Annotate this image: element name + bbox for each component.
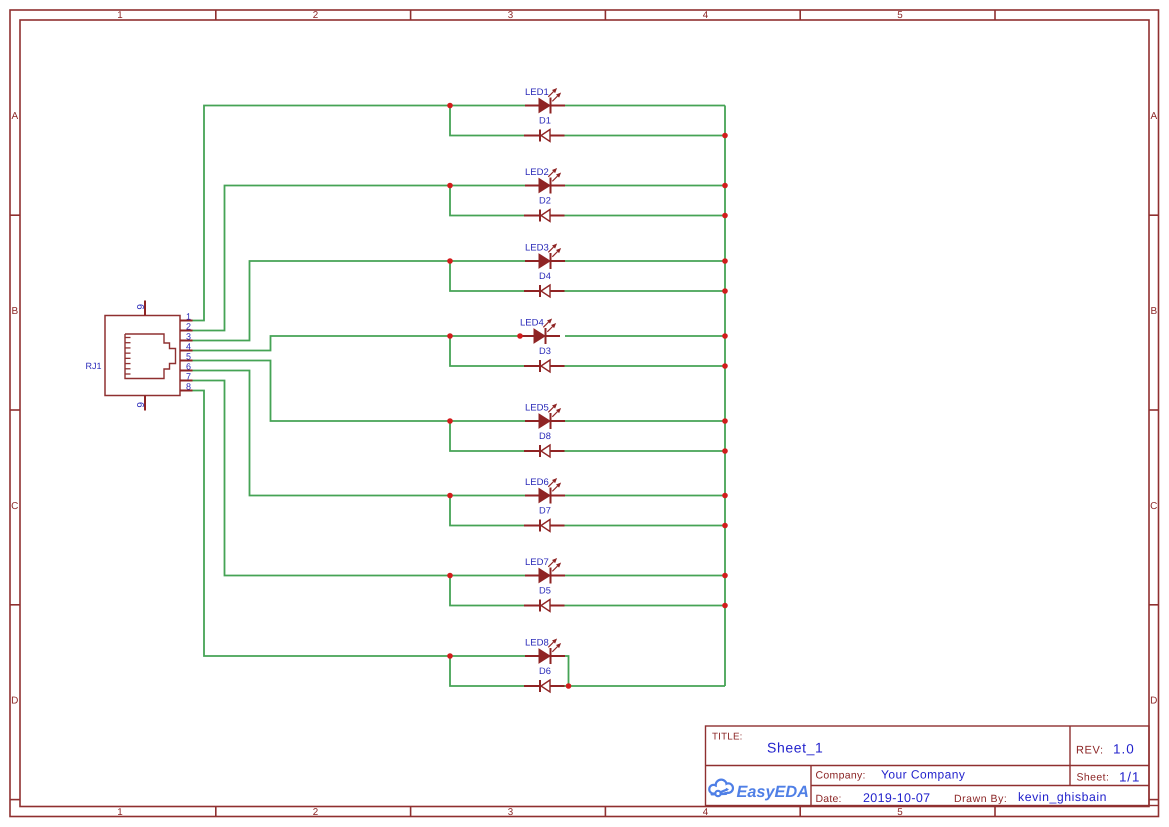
wire pin4 to LED4 row (193, 336, 451, 351)
diode D3 (524, 360, 565, 372)
wire LED3 anode segment (450, 260, 525, 262)
svg-text:Date:: Date: (816, 793, 842, 805)
wire LED7 anode segment (450, 575, 525, 577)
wire LED1 row down to diode D1 (450, 106, 524, 136)
connector RJ1 (RJ45 jack) (105, 316, 180, 396)
svg-text:D3: D3 (539, 346, 551, 356)
wire LED3 row down to diode D4 (450, 261, 524, 291)
svg-text:4: 4 (703, 10, 709, 21)
wire LED8 anode segment (450, 655, 525, 657)
svg-text:1.0: 1.0 (1113, 742, 1135, 757)
svg-text:LED1: LED1 (525, 87, 549, 98)
wire LED7 row down to diode D5 (450, 576, 524, 606)
junction D6 row below LED8 (566, 683, 572, 689)
svg-text:8: 8 (186, 382, 191, 392)
wire right vertical bus (724, 106, 726, 687)
junction diode D5 at bus (722, 603, 728, 609)
svg-text:B: B (11, 306, 18, 317)
svg-text:A: A (11, 111, 18, 122)
wire diode D2 to bus (565, 215, 726, 217)
svg-text:Sheet_1: Sheet_1 (767, 740, 823, 756)
wire LED2 anode segment (450, 185, 525, 187)
svg-text:9: 9 (136, 304, 147, 310)
junction wire-end on LED4 pin (517, 333, 523, 339)
svg-text:9: 9 (136, 402, 147, 408)
wire diode D1 to bus (565, 135, 726, 137)
svg-text:C: C (11, 501, 18, 512)
junction at left of LED7 (447, 573, 453, 579)
diode D6 (524, 680, 565, 692)
junction at left of LED8 (447, 653, 453, 659)
wire LED6 anode segment (450, 495, 525, 497)
svg-text:LED6: LED6 (525, 477, 549, 488)
svg-text:B: B (1150, 306, 1157, 317)
diode D2 (524, 210, 565, 222)
svg-text:TITLE:: TITLE: (712, 731, 743, 742)
junction at left of LED3 (447, 258, 453, 264)
svg-text:REV:: REV: (1076, 744, 1104, 756)
svg-text:Company:: Company: (816, 770, 866, 782)
svg-text:LED7: LED7 (525, 557, 549, 568)
svg-text:2: 2 (186, 322, 191, 332)
wire pin2 to LED2 row (193, 186, 451, 331)
junction at left of LED6 (447, 493, 453, 499)
svg-text:2: 2 (313, 807, 318, 818)
wire diode D8 to bus (565, 450, 726, 452)
wire LED7 cathode to bus (565, 575, 725, 577)
wire diode D3 to bus (565, 365, 726, 367)
svg-text:3: 3 (186, 332, 191, 342)
wire LED4 cathode to bus (565, 335, 725, 337)
junction at left of LED5 (447, 418, 453, 424)
svg-text:D7: D7 (539, 505, 551, 515)
svg-text:Your Company: Your Company (881, 767, 965, 781)
junction LED3 at bus (722, 258, 728, 264)
wire pin8 to LED8 row (193, 391, 451, 657)
svg-text:D2: D2 (539, 195, 551, 205)
wire diode D4 to bus (565, 290, 726, 292)
pin 3 of RJ1 (180, 340, 193, 342)
wire LED3 cathode to bus (565, 260, 725, 262)
svg-text:LED4: LED4 (520, 317, 544, 328)
svg-text:6: 6 (186, 362, 191, 372)
svg-text:1: 1 (117, 807, 122, 818)
diode D4 (524, 285, 565, 297)
svg-text:LED8: LED8 (525, 637, 549, 648)
svg-text:LED3: LED3 (525, 242, 549, 253)
diode D5 (524, 600, 565, 612)
svg-text:D5: D5 (539, 585, 551, 595)
svg-text:EasyEDA: EasyEDA (737, 783, 809, 801)
LED LED5 (525, 404, 565, 430)
svg-text:4: 4 (186, 342, 191, 352)
junction at left of LED1 (447, 103, 453, 109)
diode D7 (524, 520, 565, 532)
wire LED1 anode segment (450, 105, 525, 107)
diode D8 (524, 445, 565, 457)
pin 2 of RJ1 (180, 330, 193, 332)
wire LED2 row down to diode D2 (450, 186, 524, 216)
pin 6 of RJ1 (180, 370, 193, 372)
wire LED8 cathode down to D6 row (560, 656, 569, 686)
wire pin5 to LED5 row (193, 361, 451, 422)
junction diode D7 at bus (722, 523, 728, 529)
wire pin6 to LED6 row (193, 371, 451, 496)
svg-text:C: C (1150, 501, 1157, 512)
svg-text:5: 5 (186, 352, 191, 362)
junction LED2 at bus (722, 183, 728, 189)
svg-text:Sheet:: Sheet: (1077, 771, 1110, 783)
junction diode D1 at bus (722, 133, 728, 139)
LED LED3 (525, 244, 565, 270)
svg-text:D: D (1150, 696, 1157, 707)
pin 1 of RJ1 (180, 320, 193, 322)
wire diode D6 to bus (565, 685, 726, 687)
pin 9 (bottom shield stub) (144, 396, 146, 411)
LED LED1 (525, 88, 565, 114)
svg-text:4: 4 (703, 807, 709, 818)
LED LED8 (525, 639, 565, 665)
svg-text:RJ1: RJ1 (85, 361, 101, 371)
junction LED7 at bus (722, 573, 728, 579)
title block (706, 726, 1159, 806)
svg-text:D6: D6 (539, 666, 551, 676)
svg-text:3: 3 (508, 10, 514, 21)
junction at left of LED4 (447, 333, 453, 339)
wire LED4 anode segment (450, 335, 520, 337)
wire pin1 to LED1 row (193, 106, 451, 321)
diode D1 (524, 130, 565, 142)
wire diode D5 to bus (565, 605, 726, 607)
wire LED8 row down to diode D6 (450, 656, 524, 686)
wire LED5 anode segment (450, 420, 525, 422)
junction diode D8 at bus (722, 448, 728, 454)
svg-text:7: 7 (186, 372, 191, 382)
junction LED6 at bus (722, 493, 728, 499)
junction LED5 at bus (722, 418, 728, 424)
junction LED4 at bus (722, 333, 728, 339)
LED LED6 (525, 478, 565, 504)
pin 8 of RJ1 (180, 390, 193, 392)
LED LED7 (525, 558, 565, 584)
svg-text:A: A (1150, 111, 1157, 122)
wire LED6 row down to diode D7 (450, 496, 524, 526)
wire pin7 to LED7 row (193, 381, 451, 576)
junction diode D3 at bus (722, 363, 728, 369)
wire LED6 cathode to bus (565, 495, 725, 497)
wire pin3 to LED3 row (193, 261, 451, 341)
svg-text:2: 2 (313, 10, 318, 21)
junction diode D4 at bus (722, 288, 728, 294)
EasyEDA logo (709, 780, 809, 801)
pin 9 (top shield stub) (144, 301, 146, 316)
svg-text:5: 5 (897, 10, 903, 21)
wire diode D7 to bus (565, 525, 726, 527)
pin 7 of RJ1 (180, 380, 193, 382)
svg-text:LED2: LED2 (525, 167, 549, 178)
svg-text:2019-10-07: 2019-10-07 (863, 791, 930, 805)
svg-text:D8: D8 (539, 431, 551, 441)
svg-text:Drawn By:: Drawn By: (954, 793, 1007, 805)
LED LED2 (525, 168, 565, 194)
svg-text:D1: D1 (539, 115, 551, 125)
junction at left of LED2 (447, 183, 453, 189)
wire LED1 cathode to bus (565, 105, 725, 107)
svg-text:5: 5 (897, 807, 903, 818)
svg-text:D4: D4 (539, 271, 551, 281)
svg-text:1/1: 1/1 (1119, 770, 1140, 785)
LED LED4 (520, 319, 560, 345)
svg-text:3: 3 (508, 807, 514, 818)
wire LED5 cathode to bus (565, 420, 725, 422)
svg-text:1: 1 (186, 312, 191, 322)
wire LED5 row down to diode D8 (450, 421, 524, 451)
svg-text:D: D (11, 696, 18, 707)
svg-text:LED5: LED5 (525, 402, 549, 413)
pin 5 of RJ1 (180, 360, 193, 362)
svg-text:1: 1 (117, 10, 122, 21)
junction diode D2 at bus (722, 213, 728, 219)
svg-text:kevin_ghisbain: kevin_ghisbain (1018, 790, 1107, 804)
wire LED4 row down to diode D3 (450, 336, 524, 366)
pin 4 of RJ1 (180, 350, 193, 352)
wire LED2 cathode to bus (565, 185, 725, 187)
